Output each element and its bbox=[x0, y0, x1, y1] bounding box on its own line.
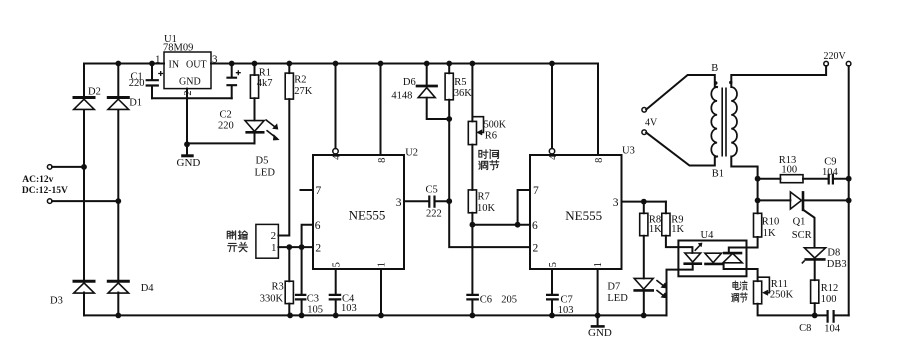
wire U4 LED cathode to ground rail bbox=[667, 265, 693, 316]
label R10 1K bbox=[762, 217, 780, 239]
wire U2 pin4 column bbox=[335, 64, 337, 149]
resistor R7 bbox=[468, 190, 476, 213]
label R1 4k7 bbox=[257, 68, 273, 89]
svg-text:C6: C6 bbox=[480, 295, 492, 306]
op-amp U3 box NE555 bbox=[530, 155, 622, 269]
label R13 100 bbox=[779, 155, 797, 175]
junction node (757,178) bbox=[755, 176, 761, 182]
svg-text:R12: R12 bbox=[821, 283, 839, 294]
label AC:12v DC:12-15V bbox=[22, 175, 68, 196]
terminal 220V 1 bbox=[824, 61, 829, 66]
regulator U1 box bbox=[164, 52, 211, 89]
transformer B primary coil bbox=[711, 87, 717, 157]
junction node (472,224) bbox=[470, 222, 476, 228]
svg-text:10K: 10K bbox=[477, 203, 496, 214]
junction node bottom rail x335 bbox=[333, 313, 339, 319]
svg-text:R3: R3 bbox=[272, 282, 284, 293]
wire C1-GND-C2 link bbox=[152, 97, 232, 99]
svg-text:250K: 250K bbox=[770, 290, 794, 301]
svg-text:4V: 4V bbox=[645, 118, 658, 129]
junction node top rail x152 bbox=[149, 61, 155, 67]
svg-text:103: 103 bbox=[558, 305, 574, 316]
svg-text:5: 5 bbox=[548, 262, 559, 267]
wire U2 pin7 stub bbox=[301, 189, 314, 191]
terminal AC input 2 bbox=[47, 199, 52, 204]
svg-text:IN: IN bbox=[169, 60, 180, 71]
wire R5 column bbox=[448, 64, 450, 120]
svg-text:36K: 36K bbox=[454, 88, 473, 99]
resistor R9 bbox=[662, 213, 670, 235]
svg-text:GND: GND bbox=[177, 157, 201, 169]
label 脚踏 (foot) bbox=[227, 231, 247, 240]
optocoupler U4 box bbox=[678, 241, 746, 277]
wire footswitch pin1 to U2 pin2 bbox=[278, 246, 313, 248]
resistor R2 bbox=[285, 73, 293, 99]
svg-text:R7: R7 bbox=[478, 192, 490, 203]
svg-text:NE555: NE555 bbox=[349, 208, 386, 223]
wire R9 column to U4 LED anode bbox=[666, 202, 693, 253]
wire node3 column to U3 pin2 bbox=[449, 119, 530, 247]
wire secondary bottom to node B1 bbox=[731, 157, 757, 179]
junction node (449,201) bbox=[446, 198, 452, 204]
junction node (757,200) bbox=[755, 198, 761, 204]
potentiometer R6 bbox=[468, 117, 483, 145]
ground symbol right bbox=[591, 315, 605, 326]
svg-text:7: 7 bbox=[533, 185, 539, 197]
junction node (301,247) bbox=[299, 244, 305, 250]
svg-text:DC:12-15V: DC:12-15V bbox=[22, 186, 68, 196]
wire D2/D3 column bbox=[83, 64, 85, 316]
svg-text:D5: D5 bbox=[256, 156, 269, 167]
label C5 222 bbox=[426, 185, 442, 220]
resistor R8 bbox=[640, 213, 648, 235]
transformer B secondary coil bbox=[731, 87, 737, 157]
label 开关 (switch) bbox=[228, 242, 248, 251]
svg-text:D8: D8 bbox=[827, 248, 840, 259]
svg-text:205: 205 bbox=[501, 295, 517, 306]
U3 pin4 reset circle bbox=[549, 149, 554, 154]
resistor R3 bbox=[285, 281, 293, 303]
svg-text:R6: R6 bbox=[485, 131, 497, 142]
junction node (84,166) bbox=[81, 164, 87, 170]
label R2 27K bbox=[294, 74, 313, 97]
label R7 10K bbox=[477, 192, 496, 214]
label U1 78M09 bbox=[163, 34, 193, 54]
terminal 4V 2 bbox=[642, 130, 647, 135]
svg-text:105: 105 bbox=[307, 305, 323, 316]
ground symbol left bbox=[181, 154, 194, 157]
wire D6 column bbox=[427, 64, 450, 120]
wire U2 pin6 link bbox=[302, 225, 313, 247]
svg-text:100: 100 bbox=[781, 164, 797, 175]
svg-text:D6: D6 bbox=[403, 77, 416, 88]
capacitor C4 bbox=[329, 295, 342, 300]
svg-text:222: 222 bbox=[426, 209, 442, 220]
svg-text:78M09: 78M09 bbox=[163, 43, 193, 54]
junction node top rail x380 bbox=[378, 61, 384, 67]
LED D7 bbox=[633, 278, 666, 298]
terminal AC input 1 bbox=[47, 165, 52, 170]
label D5 LED bbox=[255, 156, 276, 179]
junction node (517,224) bbox=[515, 222, 521, 228]
label C9 104 bbox=[822, 157, 839, 179]
wire 4V terminal 1 diagonal bbox=[646, 75, 717, 110]
label C3 105 bbox=[307, 294, 323, 316]
junction node (643,201) bbox=[641, 199, 647, 205]
capacitor C8 bbox=[828, 310, 834, 323]
wire C2 column bbox=[231, 64, 233, 99]
svg-text:U2: U2 bbox=[405, 148, 418, 159]
svg-text:4: 4 bbox=[332, 154, 343, 160]
svg-text:AC:12v: AC:12v bbox=[22, 175, 53, 185]
capacitor C5 bbox=[429, 196, 434, 208]
pin numbers U2 left bbox=[315, 185, 322, 254]
svg-text:B1: B1 bbox=[712, 169, 724, 180]
wire hot-side bottom rail bbox=[758, 304, 849, 316]
junction node top rail x118 bbox=[115, 61, 121, 67]
U2 pin4 reset circle bbox=[333, 149, 338, 154]
terminal 220V 2 bbox=[846, 61, 851, 66]
wire R3 column bbox=[288, 247, 290, 315]
svg-text:C3: C3 bbox=[307, 294, 319, 305]
svg-text:103: 103 bbox=[341, 303, 357, 314]
terminal 4V 1 bbox=[642, 108, 647, 113]
wire Q1 cathode line bbox=[803, 199, 848, 201]
svg-text:104: 104 bbox=[824, 324, 841, 335]
svg-text:3: 3 bbox=[212, 54, 218, 66]
resistor R1 bbox=[250, 75, 258, 98]
wire Q1 gate to D8 bbox=[803, 210, 814, 247]
junction node top rail x254 bbox=[252, 61, 258, 67]
junction node bottom rail x381 bbox=[378, 313, 384, 319]
wire U2 pin3 to C5 bbox=[404, 200, 449, 202]
label R12 100 bbox=[821, 283, 839, 305]
wire top rail main (U1 OUT to U3 pin8) bbox=[211, 63, 598, 65]
svg-text:C8: C8 bbox=[799, 323, 811, 334]
svg-text:NE555: NE555 bbox=[565, 208, 602, 223]
svg-text:R10: R10 bbox=[762, 217, 780, 228]
svg-text:8: 8 bbox=[594, 158, 605, 163]
svg-text:D1: D1 bbox=[129, 98, 142, 109]
wire D1/D4 column bbox=[117, 64, 119, 316]
label U1 pins bbox=[169, 60, 207, 88]
svg-text:220V: 220V bbox=[824, 51, 847, 62]
label R5 36K bbox=[454, 77, 473, 99]
junction node bottom rail x597 bbox=[595, 313, 601, 319]
junction node bottom rail x118 bbox=[115, 313, 121, 319]
diode D1 bbox=[107, 98, 130, 110]
svg-text:D7: D7 bbox=[607, 282, 620, 293]
svg-text:D4: D4 bbox=[141, 283, 155, 294]
LED D5 bbox=[245, 120, 279, 141]
label C6 205 bbox=[480, 295, 517, 306]
label 电流 (current) bbox=[733, 281, 747, 290]
svg-text:OUT: OUT bbox=[186, 60, 207, 71]
svg-text:LED: LED bbox=[607, 293, 628, 304]
wire U3 pin5 / C7 column bbox=[551, 269, 553, 315]
label C8 104 bbox=[799, 323, 841, 335]
junction node bottom rail x552 bbox=[549, 313, 555, 319]
capacitor C2 bbox=[226, 70, 240, 85]
pin numbers U3 left bbox=[532, 185, 539, 254]
svg-text:6: 6 bbox=[315, 220, 321, 232]
wire R6/R7/C6 column bbox=[471, 64, 473, 316]
svg-text:2: 2 bbox=[183, 91, 194, 96]
diode D3 bbox=[73, 281, 96, 293]
svg-text:1: 1 bbox=[155, 54, 161, 66]
svg-text:1: 1 bbox=[593, 262, 604, 267]
svg-text:104: 104 bbox=[822, 167, 839, 178]
wire AC terminal 1 bbox=[52, 166, 84, 168]
wire U3 pin4 column bbox=[551, 64, 553, 149]
svg-text:LED: LED bbox=[255, 167, 276, 178]
diode D6 bbox=[416, 86, 438, 98]
svg-text:4k7: 4k7 bbox=[257, 78, 273, 89]
junction node (848,178) bbox=[846, 176, 852, 182]
resistor R10 bbox=[754, 213, 762, 237]
label 调节 (adjust) bbox=[479, 160, 499, 169]
svg-text:D3: D3 bbox=[50, 296, 63, 307]
svg-text:220: 220 bbox=[218, 120, 234, 131]
svg-text:GND: GND bbox=[179, 77, 201, 88]
wire R8/D7 column bbox=[643, 202, 645, 316]
wire AC terminal 2 bbox=[52, 200, 118, 202]
svg-text:100: 100 bbox=[821, 294, 837, 305]
svg-text:R11: R11 bbox=[771, 279, 788, 290]
svg-text:3: 3 bbox=[613, 197, 619, 209]
wire bottom rail bbox=[84, 314, 667, 316]
svg-text:7: 7 bbox=[316, 185, 322, 197]
resistor R5 bbox=[445, 73, 453, 100]
svg-text:4: 4 bbox=[548, 154, 559, 160]
svg-text:GND: GND bbox=[588, 327, 612, 339]
label R11 250K bbox=[770, 279, 794, 301]
svg-text:1K: 1K bbox=[671, 224, 684, 235]
svg-text:C9: C9 bbox=[824, 157, 836, 168]
label Q1 SCR bbox=[792, 217, 812, 242]
label C4 103 bbox=[341, 294, 357, 315]
potentiometer R11 bbox=[754, 277, 770, 304]
wire R2 column to footswitch pin2 bbox=[278, 64, 289, 236]
label C2 220 bbox=[218, 109, 234, 131]
svg-text:B: B bbox=[711, 63, 718, 74]
svg-text:U4: U4 bbox=[701, 230, 715, 241]
wire C1 column bbox=[151, 64, 153, 99]
svg-text:220: 220 bbox=[129, 78, 145, 89]
svg-text:330K: 330K bbox=[260, 294, 284, 305]
wire right rail bbox=[848, 66, 850, 315]
wire C9 to right rail bbox=[834, 178, 849, 180]
label C7 103 bbox=[558, 295, 574, 316]
junction node top rail x472 bbox=[470, 61, 476, 67]
svg-text:2: 2 bbox=[315, 242, 321, 254]
wire D5 cathode to ground node bbox=[187, 142, 255, 144]
label D6 4148 bbox=[391, 77, 415, 102]
capacitor C9 bbox=[829, 174, 833, 185]
junction node top rail x449 bbox=[446, 61, 452, 67]
capacitor C7 bbox=[546, 295, 559, 300]
svg-text:R2: R2 bbox=[294, 74, 306, 85]
label 时间 (time) bbox=[479, 150, 499, 159]
junction node (187,144) bbox=[184, 141, 190, 147]
U4 internal LED bbox=[683, 243, 702, 264]
junction node (449,119) bbox=[446, 116, 452, 122]
wire R13 line bbox=[758, 178, 828, 180]
diode D2 bbox=[73, 98, 96, 110]
resistor R12 bbox=[811, 280, 819, 303]
junction node (118,201) bbox=[115, 198, 121, 204]
wire secondary top to 220V bbox=[731, 66, 826, 87]
svg-text:1: 1 bbox=[271, 242, 277, 254]
wire U2 pin1 column bbox=[380, 269, 382, 315]
junction node top rail x289 bbox=[286, 61, 292, 67]
wire C3 column bbox=[301, 247, 303, 315]
label D7 LED bbox=[607, 282, 628, 304]
label 500K R6 bbox=[484, 120, 507, 142]
wire U3 pin7 link bbox=[518, 190, 530, 225]
label R8 1K bbox=[649, 215, 662, 236]
junction node (289,247) bbox=[286, 244, 292, 250]
label R3 330K bbox=[260, 282, 284, 305]
label C1 220 bbox=[129, 71, 145, 89]
label 调节 (adjust 2) bbox=[732, 293, 748, 302]
op-amp U2 box NE555 bbox=[313, 155, 404, 269]
svg-text:4148: 4148 bbox=[391, 91, 412, 102]
wire R10 column bbox=[757, 179, 759, 214]
wire top rail left (bridge to U1 IN) bbox=[84, 63, 164, 65]
svg-text:27K: 27K bbox=[294, 86, 313, 97]
svg-text:500K: 500K bbox=[484, 120, 507, 131]
diac D8 bbox=[802, 248, 826, 264]
wire Q1 anode line bbox=[758, 199, 791, 201]
svg-text:1: 1 bbox=[377, 262, 388, 267]
svg-text:6: 6 bbox=[532, 220, 538, 232]
capacitor C6 bbox=[466, 295, 479, 300]
junction node top rail x426 bbox=[424, 61, 430, 67]
junction node top rail x552 bbox=[549, 61, 555, 67]
wire U4 triac MT1 to R11 bbox=[724, 264, 758, 281]
svg-text:1K: 1K bbox=[649, 224, 662, 235]
wire R1/D5 column bbox=[254, 64, 256, 144]
wire U2 pin8 column bbox=[380, 64, 382, 156]
junction node top rail x231 bbox=[229, 61, 235, 67]
label D8 DB3 bbox=[827, 248, 847, 271]
resistor R13 bbox=[780, 175, 803, 183]
wire U3 pin6 line bbox=[472, 224, 530, 226]
wire U2 pin5 / C4 column bbox=[335, 269, 337, 315]
label R9 1K bbox=[671, 215, 684, 236]
svg-text:U3: U3 bbox=[622, 146, 635, 157]
wire U3 pin3 line bbox=[622, 201, 666, 203]
wire 4V terminal 2 diagonal bbox=[646, 133, 717, 166]
diode D4 bbox=[107, 281, 130, 293]
svg-text:Q1: Q1 bbox=[793, 217, 806, 228]
svg-text:2: 2 bbox=[533, 242, 539, 254]
svg-text:R5: R5 bbox=[454, 77, 466, 88]
U4 internal triac bbox=[704, 253, 742, 264]
footswitch box bbox=[256, 224, 279, 258]
svg-text:2: 2 bbox=[271, 230, 277, 242]
junction node bottom rail x643 bbox=[641, 313, 647, 319]
junction node bottom rail x472 bbox=[470, 313, 476, 319]
wire U3 pin8 drop bbox=[597, 64, 599, 156]
svg-text:3: 3 bbox=[396, 197, 402, 209]
capacitor C3 bbox=[295, 295, 307, 300]
junction node top rail x335 bbox=[333, 61, 339, 67]
thyristor Q1 bbox=[790, 191, 803, 211]
svg-text:C5: C5 bbox=[426, 185, 438, 196]
svg-text:8: 8 bbox=[377, 158, 388, 163]
capacitor C1 bbox=[146, 71, 164, 86]
svg-text:C2: C2 bbox=[220, 109, 232, 120]
wire U1 pin2 to ground node bbox=[186, 89, 188, 155]
svg-text:1K: 1K bbox=[763, 228, 776, 239]
wire U3 pin1 column bbox=[597, 269, 599, 315]
transformer core bbox=[722, 88, 726, 157]
svg-text:SCR: SCR bbox=[792, 230, 812, 241]
svg-text:5: 5 bbox=[331, 262, 342, 267]
junction node bottom rail x301 bbox=[299, 313, 305, 319]
wire U4 triac MT2 to R10 bbox=[729, 237, 758, 253]
junction node (848,200) bbox=[846, 198, 852, 204]
transformer phase dots bbox=[714, 81, 732, 85]
svg-text:DB3: DB3 bbox=[827, 259, 847, 270]
wire D8 to R12 bbox=[814, 261, 816, 316]
junction node bottom rail x290 bbox=[287, 313, 293, 319]
svg-text:D2: D2 bbox=[88, 87, 101, 98]
junction node bottom rail x814 bbox=[812, 313, 818, 319]
